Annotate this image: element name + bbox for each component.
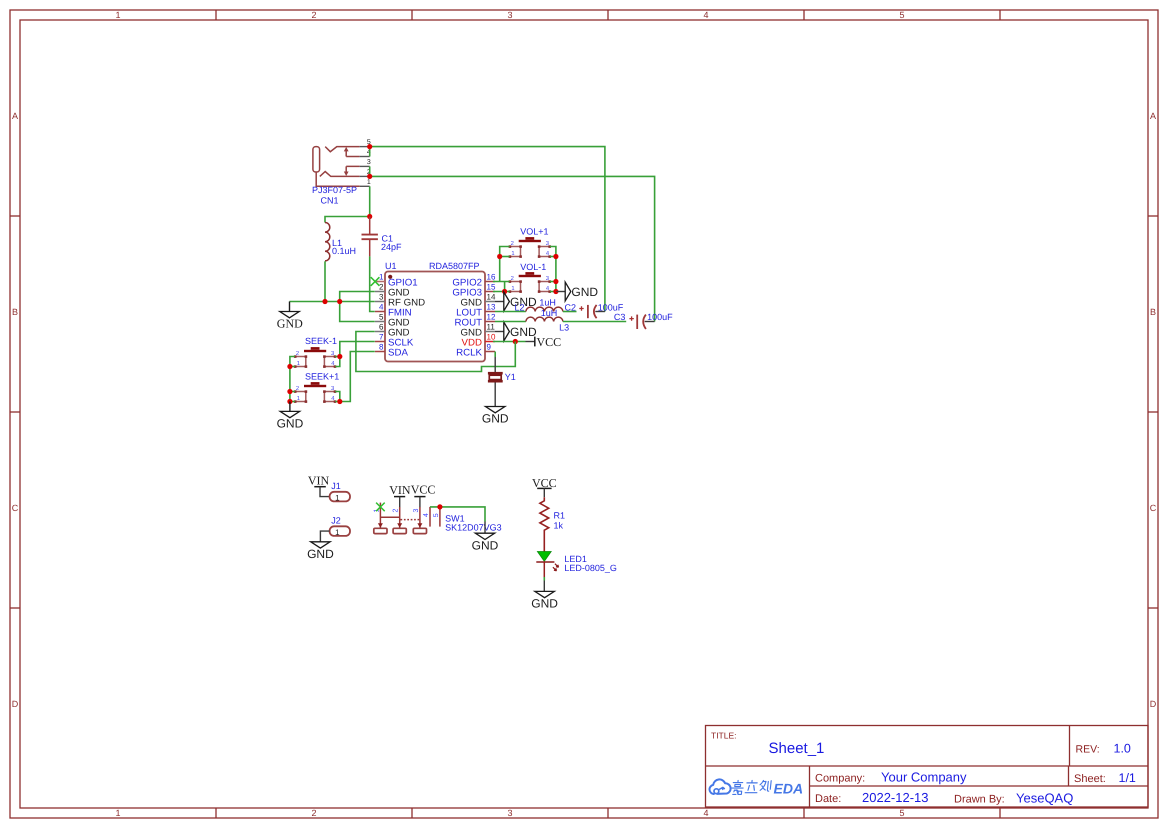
svg-text:16: 16 <box>487 273 496 282</box>
led LED1 <box>536 552 617 574</box>
U1 pins 1-8 stubs <box>375 282 385 352</box>
ground flag at pin14 <box>495 292 537 311</box>
inductor L3 <box>495 308 569 332</box>
svg-text:0.1uH: 0.1uH <box>332 246 356 256</box>
wire branch to GND pin5 <box>340 302 375 322</box>
svg-text:C: C <box>1150 503 1157 513</box>
wire jack pin1 down to node <box>369 186 371 216</box>
svg-text:11: 11 <box>487 323 496 332</box>
svg-text:C: C <box>12 503 19 513</box>
ground symbol left <box>277 302 303 331</box>
svg-text:2: 2 <box>311 10 316 20</box>
junction jack pin5 <box>367 144 372 149</box>
pushbutton VOL+1 <box>509 226 551 258</box>
svg-text:24pF: 24pF <box>381 242 402 252</box>
U1 pin1 indicator dot <box>388 275 392 279</box>
svg-text:9: 9 <box>487 343 492 352</box>
svg-text:VIN: VIN <box>308 473 330 487</box>
junction SEEK-1 right <box>337 354 342 359</box>
wire led cathode to gnd <box>543 562 545 591</box>
svg-text:SK12D07VG3: SK12D07VG3 <box>445 523 502 533</box>
junction SEEK-1 left <box>287 364 292 369</box>
svg-text:B: B <box>12 307 18 317</box>
svg-text:VOL-1: VOL-1 <box>520 262 546 272</box>
SW1 pin numbers 1-5 <box>373 509 440 518</box>
svg-text:Sheet:: Sheet: <box>1074 773 1106 785</box>
svg-text:14: 14 <box>487 293 496 302</box>
svg-text:Company:: Company: <box>815 773 865 785</box>
svg-text:D: D <box>12 699 19 709</box>
wire VDD node to pin6 (around bottom of U1) <box>356 332 515 372</box>
svg-text:1uH: 1uH <box>539 298 556 308</box>
svg-text:VCC: VCC <box>411 483 436 497</box>
junction SEEK+1 right <box>337 399 342 404</box>
wire VOL+1 right to VOL-1 right and GND <box>550 247 556 292</box>
svg-text:7: 7 <box>379 333 384 342</box>
svg-text:Sheet_1: Sheet_1 <box>769 740 825 757</box>
svg-text:1: 1 <box>379 273 384 282</box>
svg-text:J1: J1 <box>331 481 341 491</box>
svg-text:1.0: 1.0 <box>1114 742 1131 756</box>
ic U1 RDA5807FP <box>375 261 496 362</box>
capacitor C3 <box>563 312 673 329</box>
switch body <box>380 503 440 529</box>
U1 pin names GPIO1 GND RF GND FMIN GND GND SCLK SDA <box>388 278 425 359</box>
svg-text:YeseQAQ: YeseQAQ <box>1016 791 1073 806</box>
svg-text:15: 15 <box>487 283 496 292</box>
connector J1 <box>330 481 350 502</box>
svg-text:TITLE:: TITLE: <box>711 731 737 741</box>
ground at LED <box>531 591 558 610</box>
wire branch to GND pin2 <box>340 292 375 302</box>
svg-text:RCLK: RCLK <box>456 348 482 359</box>
svg-text:1/1: 1/1 <box>1119 771 1136 785</box>
ground below SEEK buttons <box>277 402 304 431</box>
svg-text:4: 4 <box>423 513 430 517</box>
no-connect X on pin1 <box>371 277 380 286</box>
svg-text:C2: C2 <box>565 302 577 312</box>
svg-text:3: 3 <box>367 159 371 166</box>
svg-text:5: 5 <box>379 313 384 322</box>
svg-text:Drawn By:: Drawn By: <box>954 794 1005 806</box>
wire jack pin5 to pin4 <box>369 147 371 157</box>
U1 pins 16-9 stubs <box>485 282 495 352</box>
svg-text:VIN: VIN <box>389 483 411 497</box>
junction VOL-1 right top <box>553 279 558 284</box>
junction SEEK+1 left bottom <box>287 399 292 404</box>
svg-text:VCC: VCC <box>537 335 562 349</box>
crystal Y1 <box>482 352 516 426</box>
svg-text:A: A <box>1150 111 1156 121</box>
svg-text:2: 2 <box>379 283 384 292</box>
svg-text:5: 5 <box>899 808 904 818</box>
power VCC at R1 <box>532 476 557 497</box>
wire jack pin3 to pin2 <box>369 166 371 176</box>
svg-text:100uF: 100uF <box>598 302 624 312</box>
title block <box>706 726 1149 808</box>
wire SCLK pin7 to SEEK buttons <box>340 342 375 357</box>
logo EasyEDA <box>710 779 804 796</box>
svg-text:A: A <box>12 111 18 121</box>
svg-text:1: 1 <box>335 493 340 502</box>
wire gnd net horizontal to RF GND pin3 <box>290 301 375 303</box>
svg-text:L3: L3 <box>559 322 569 332</box>
U1 pin numbers 16-9 <box>487 273 496 352</box>
wire SEEK-1 right pins <box>335 357 340 367</box>
svg-text:12: 12 <box>487 313 496 322</box>
svg-text:B: B <box>1150 307 1156 317</box>
capacitor C2 <box>563 302 624 318</box>
wire SDA pin8 to SEEK+1 <box>340 352 375 402</box>
svg-text:EDA: EDA <box>774 781 804 797</box>
CN1 pin numbers 5 4 3 2 1 <box>367 139 371 186</box>
svg-text:1: 1 <box>367 179 371 186</box>
inductor L1 <box>325 223 356 261</box>
junction VOL-1 left <box>502 289 507 294</box>
junction antenna node <box>367 214 372 219</box>
wire GPIO3 pin15 to VOL-1 <box>493 282 510 292</box>
svg-text:2: 2 <box>311 808 316 818</box>
junction VOL+1 right <box>553 254 558 259</box>
ground at J2 <box>307 531 334 561</box>
svg-text:3: 3 <box>507 10 512 20</box>
pushbutton VOL-1 <box>509 262 551 293</box>
ground at SW1 <box>472 522 499 553</box>
svg-text:2022-12-13: 2022-12-13 <box>862 790 929 805</box>
wire SEEK+1 right pins <box>335 392 340 402</box>
svg-text:Y1: Y1 <box>505 372 516 382</box>
U1 pin names GPIO2 GPIO3 GND LOUT ROUT GND VDD RCLK <box>452 278 482 359</box>
ground flag at pin11 <box>495 322 537 341</box>
svg-text:SDA: SDA <box>388 348 408 359</box>
resistor R1 <box>540 497 565 551</box>
svg-text:1uH: 1uH <box>541 308 558 318</box>
svg-text:R1: R1 <box>554 511 566 521</box>
no-connect X on SW1 pin1 <box>376 503 385 512</box>
svg-text:13: 13 <box>487 303 496 312</box>
svg-text:10: 10 <box>487 333 496 342</box>
junction SW1 pin5 <box>437 504 442 509</box>
junction VDD node <box>513 339 518 344</box>
wire jack pin5 to C2 net <box>370 147 605 312</box>
svg-text:SEEK-1: SEEK-1 <box>305 336 337 346</box>
svg-text:8: 8 <box>379 343 384 352</box>
junction jack pin2 <box>367 174 372 179</box>
svg-text:3: 3 <box>413 509 420 513</box>
switch SW1 SK12D07VG3 <box>373 483 501 534</box>
svg-text:4: 4 <box>379 303 384 312</box>
pushbutton SEEK-1 <box>294 336 337 368</box>
power VCC flag at pin10 <box>526 335 562 349</box>
net flag VIN at J1 <box>308 473 330 496</box>
svg-text:U1: U1 <box>385 261 397 271</box>
wire VDD pin10 to VCC <box>493 341 526 343</box>
svg-text:4: 4 <box>703 808 708 818</box>
svg-text:Your Company: Your Company <box>881 770 967 785</box>
svg-text:LED-0805_G: LED-0805_G <box>564 563 617 573</box>
pushbutton SEEK+1 <box>294 372 339 403</box>
svg-text:1: 1 <box>335 528 340 537</box>
svg-text:3: 3 <box>507 808 512 818</box>
svg-text:Date:: Date: <box>815 793 841 805</box>
junction L1 gnd <box>322 299 327 304</box>
svg-text:CN1: CN1 <box>321 196 339 206</box>
svg-text:D: D <box>1150 699 1157 709</box>
svg-text:RDA5807FP: RDA5807FP <box>429 261 480 271</box>
wire node to L1 top <box>325 217 370 223</box>
svg-text:L2: L2 <box>515 303 525 313</box>
svg-text:VOL+1: VOL+1 <box>520 226 548 236</box>
svg-text:REV:: REV: <box>1076 744 1100 756</box>
svg-text:J2: J2 <box>331 515 341 525</box>
wire GPIO2 pin16 to VOL+1 <box>493 247 510 282</box>
junction VOL-1 right bottom <box>553 289 558 294</box>
svg-text:C3: C3 <box>614 312 626 322</box>
svg-text:1: 1 <box>115 808 120 818</box>
svg-text:SEEK+1: SEEK+1 <box>305 372 339 382</box>
svg-text:GND: GND <box>277 317 303 331</box>
junction VOL+1 left <box>497 254 502 259</box>
svg-text:1k: 1k <box>554 521 564 531</box>
ground flag at VOL buttons <box>556 282 598 301</box>
connector J2 <box>330 515 350 537</box>
wire L1 bottom to gnd net <box>324 261 326 301</box>
svg-text:4: 4 <box>703 10 708 20</box>
wire SEEK-1 left pins to gnd chain <box>290 357 295 402</box>
svg-text:3: 3 <box>379 293 384 302</box>
wire jack pin2 to C3 net <box>370 176 655 321</box>
wire C1 bottom to FMIN pin4 <box>370 256 375 311</box>
junction gnd branch <box>337 299 342 304</box>
svg-text:PJ3F07-5P: PJ3F07-5P <box>312 185 357 195</box>
svg-text:5: 5 <box>433 513 440 517</box>
svg-text:6: 6 <box>379 323 384 332</box>
svg-text:2: 2 <box>393 509 400 513</box>
capacitor C1 <box>362 217 403 257</box>
wire SW1 pins 4,5 to gnd <box>430 507 485 522</box>
svg-text:5: 5 <box>899 10 904 20</box>
inductor L2 <box>495 298 563 313</box>
junction SEEK+1 left top <box>287 389 292 394</box>
U1 pin numbers 1-8 <box>379 273 384 352</box>
svg-text:100uF: 100uF <box>647 312 673 322</box>
connector CN1 (PJ3F07-5P audio jack) <box>312 139 371 205</box>
svg-text:1: 1 <box>115 10 120 20</box>
